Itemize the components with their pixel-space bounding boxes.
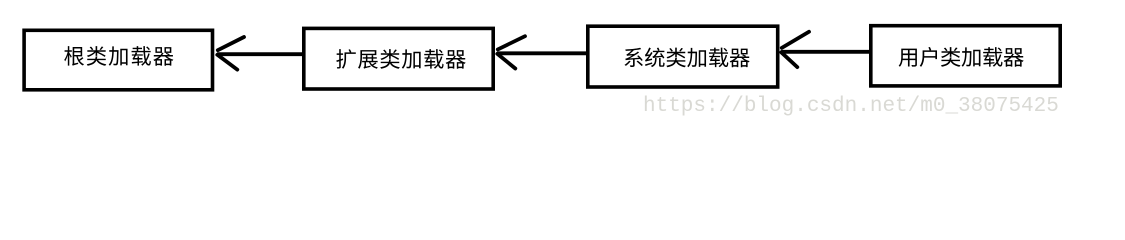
- arrow 3 (from box 4 to box 3): [781, 32, 869, 67]
- box extension class loader: [304, 28, 493, 89]
- box user class loader: [871, 26, 1060, 86]
- label 扩展类加载器: [336, 49, 465, 69]
- label 根类加载器: [64, 46, 173, 66]
- label 用户类加载器: [899, 47, 1024, 67]
- arrow 2 (from box 3 to box 2): [497, 36, 586, 68]
- box root class loader: [24, 30, 212, 90]
- watermark: [643, 96, 1059, 117]
- box system class loader: [588, 26, 778, 87]
- label 系统类加载器: [624, 48, 749, 68]
- arrow 1 (from box 2 to box 1): [217, 37, 302, 70]
